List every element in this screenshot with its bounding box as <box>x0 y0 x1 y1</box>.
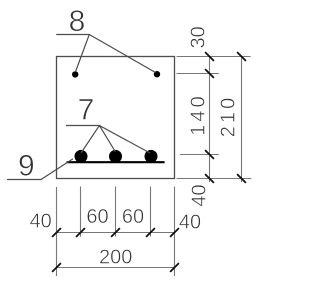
svg-text:40: 40 <box>179 212 201 234</box>
svg-text:40: 40 <box>188 184 210 206</box>
svg-text:210: 210 <box>218 98 240 138</box>
svg-text:9: 9 <box>18 150 35 183</box>
svg-text:8: 8 <box>69 5 86 38</box>
svg-text:60: 60 <box>86 206 108 228</box>
svg-text:200: 200 <box>99 246 132 268</box>
svg-text:30: 30 <box>188 26 210 48</box>
svg-text:140: 140 <box>188 96 210 136</box>
svg-text:40: 40 <box>30 211 52 233</box>
svg-text:60: 60 <box>122 206 144 228</box>
svg-text:7: 7 <box>78 94 95 127</box>
